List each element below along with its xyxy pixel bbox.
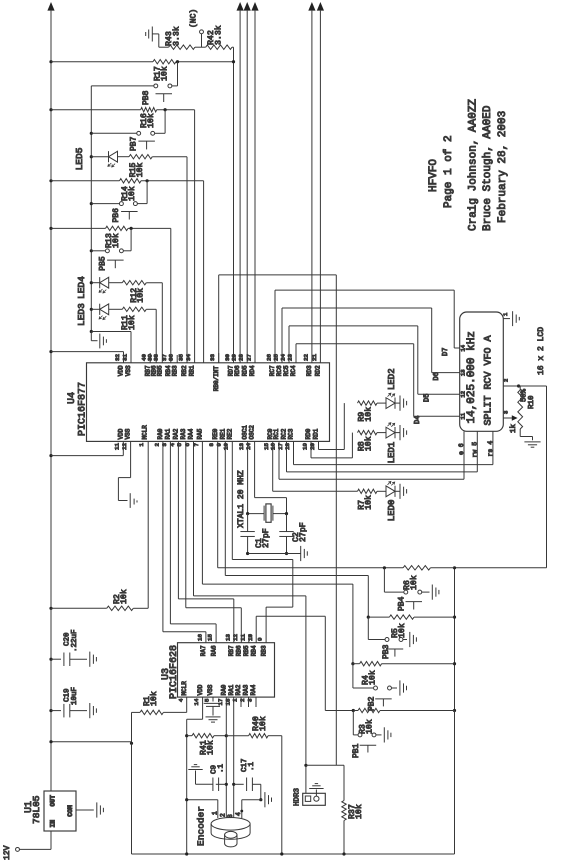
- ground U1 COM: [76, 809, 94, 811]
- resistor R3: [453, 709, 456, 712]
- wire U3 RB5 stub: [248, 634, 250, 643]
- svg-text:10k: 10k: [364, 719, 374, 734]
- svg-text:(NC): (NC): [189, 9, 198, 28]
- node OSC1/C1: [246, 512, 249, 515]
- power +5V arrow RD5: [244, 2, 251, 11]
- ground C17/encoder4: [259, 798, 262, 801]
- wire R1 to +5 node: [131, 712, 133, 743]
- svg-text:Encoder: Encoder: [195, 806, 206, 846]
- wire PB8 to ground rail: [91, 85, 153, 87]
- wire R13 node to PB5: [130, 228, 132, 250]
- svg-text:OSC2: OSC2: [249, 425, 256, 440]
- capacitor C19: [49, 709, 52, 712]
- resistor R2: [49, 607, 52, 610]
- svg-text:3: 3: [227, 814, 234, 818]
- svg-text:22: 22: [302, 354, 309, 361]
- svg-text:U4: U4: [67, 392, 78, 404]
- svg-text:Page 1 of 2: Page 1 of 2: [443, 135, 455, 208]
- wire +5V left rail vertical x=51 (to U1 OUT): [50, 11, 52, 791]
- svg-text:28: 28: [238, 354, 245, 361]
- svg-text:.1: .1: [248, 761, 256, 771]
- node OSC2/C2: [285, 512, 288, 515]
- svg-text:RC3: RC3: [288, 428, 295, 439]
- svg-text:29: 29: [231, 354, 238, 361]
- svg-text:D4: D4: [414, 416, 422, 424]
- wire R16 node to PB7: [164, 110, 166, 134]
- svg-text:18: 18: [284, 443, 291, 450]
- node RA0: [225, 734, 228, 737]
- ground HDR3 pin2: [315, 790, 317, 797]
- wire R13 row to U4 pin RB4: [170, 228, 172, 362]
- wire U4 RE2 to U3 RB3: [231, 441, 233, 559]
- wire R40 right to bottom rail: [281, 736, 283, 854]
- wire +5V branch to R14 row: [49, 179, 52, 182]
- wire U4 RC1 to LCD e: [278, 441, 280, 479]
- svg-text:PB5: PB5: [98, 256, 107, 271]
- op-amp U4 PIC16F877 box: [87, 363, 330, 442]
- svg-text:35: 35: [177, 354, 184, 361]
- node R10 top: [517, 384, 520, 387]
- svg-text:26: 26: [265, 354, 272, 361]
- svg-text:RA3: RA3: [243, 684, 250, 695]
- svg-text:RA1: RA1: [228, 684, 235, 695]
- node R16/PB7: [164, 108, 167, 111]
- svg-text:HDR3: HDR3: [293, 787, 301, 806]
- svg-text:PB1: PB1: [352, 743, 361, 758]
- svg-text:27pF: 27pF: [299, 522, 308, 542]
- svg-text:14: 14: [245, 443, 252, 450]
- svg-text:RA0: RA0: [157, 428, 164, 439]
- svg-text:February 28, 2003: February 28, 2003: [497, 111, 509, 223]
- U4 pin 40 stub: [149, 353, 151, 363]
- svg-text:.1: .1: [217, 763, 225, 773]
- svg-text:10k: 10k: [111, 233, 121, 248]
- svg-text:38: 38: [153, 354, 160, 361]
- svg-text:10uF: 10uF: [71, 687, 79, 705]
- svg-text:RE2: RE2: [226, 428, 233, 439]
- capacitor C20: [49, 658, 52, 661]
- svg-text:RB7: RB7: [228, 645, 235, 656]
- svg-text:VDD: VDD: [118, 365, 125, 376]
- resistor R37: [342, 801, 346, 821]
- svg-text:10k: 10k: [127, 315, 137, 330]
- LCD pin 3 wiper: [503, 417, 512, 419]
- svg-text:10k: 10k: [367, 670, 377, 685]
- svg-text:10k: 10k: [409, 575, 419, 590]
- svg-text:XTAL1 20 MHZ: XTAL1 20 MHZ: [237, 470, 246, 528]
- wire HDR3 to R37: [306, 764, 344, 766]
- svg-text:10k: 10k: [135, 162, 145, 177]
- svg-text:RC2: RC2: [281, 428, 288, 439]
- svg-text:RD1: RD1: [313, 428, 320, 439]
- svg-text:10: 10: [223, 443, 230, 450]
- U4 pin 36 stub: [176, 355, 178, 363]
- wire +5 U1 to R1 rail: [51, 741, 132, 743]
- svg-text:9: 9: [257, 637, 264, 641]
- svg-text:3: 3: [502, 411, 509, 414]
- power +5V arrow RD6: [237, 2, 244, 11]
- svg-text:32: 32: [114, 354, 121, 361]
- ground LED0: [395, 490, 400, 492]
- wire PB6 to ground rail: [91, 203, 119, 205]
- power +5V arrow RD4: [251, 2, 258, 11]
- svg-text:RC5: RC5: [283, 365, 290, 376]
- capacitor C2: [286, 514, 288, 532]
- U4 pin 33 stub: [218, 353, 220, 363]
- svg-text:LED5: LED5: [74, 147, 85, 170]
- wire +5V down right: [546, 386, 548, 568]
- svg-text:27: 27: [245, 354, 252, 361]
- svg-text:2: 2: [239, 698, 246, 702]
- resistor R17: [51, 61, 153, 63]
- ground LED1: [395, 432, 400, 434]
- svg-text:LED4: LED4: [76, 276, 87, 299]
- svg-text:10k: 10k: [397, 623, 407, 638]
- encoder pin 1: [217, 800, 219, 818]
- svg-text:10k: 10k: [258, 716, 268, 731]
- svg-text:12V: 12V: [3, 845, 12, 860]
- ground crystal: [300, 546, 302, 561]
- wire U4 RA1 to U3 RA6: [169, 441, 171, 624]
- svg-text:RB1: RB1: [189, 365, 196, 376]
- wire PB7 to ground rail: [91, 132, 136, 134]
- svg-text:13: 13: [224, 634, 231, 641]
- wire U4 RC2 to LCD rw: [286, 441, 288, 472]
- svg-text:2: 2: [220, 813, 227, 817]
- svg-text:RB3: RB3: [171, 365, 178, 376]
- wire U3 RB4 to R3 node: [255, 616, 257, 642]
- svg-text:RA2: RA2: [173, 428, 180, 439]
- svg-text:SPLIT RCV VFO A: SPLIT RCV VFO A: [483, 335, 494, 425]
- svg-text:RA4: RA4: [188, 428, 195, 439]
- svg-text:18: 18: [224, 698, 231, 705]
- svg-text:13: 13: [238, 443, 245, 450]
- wire U4 RA2 to U3 RB7: [177, 441, 179, 599]
- svg-text:RD4: RD4: [249, 365, 256, 376]
- resistor R1: [186, 697, 188, 712]
- capacitor C1: [247, 514, 249, 532]
- svg-text:OSC1: OSC1: [242, 425, 249, 440]
- svg-text:RC1: RC1: [273, 428, 280, 439]
- svg-text:.22uF: .22uF: [71, 629, 79, 652]
- wire bottom +5 rail: [132, 853, 455, 855]
- svg-text:VSS: VSS: [207, 684, 214, 695]
- svg-text:10k: 10k: [119, 589, 129, 604]
- svg-text:11: 11: [460, 412, 467, 419]
- wire U4 VDD pin11 feed: [49, 454, 52, 457]
- wire U4 RA0 to U3 RA7: [162, 441, 164, 631]
- svg-text:17: 17: [277, 443, 284, 450]
- svg-text:RC4: RC4: [290, 365, 297, 376]
- wire U4 RC3 to LCD rs: [293, 441, 295, 464]
- svg-text:10: 10: [247, 634, 254, 641]
- wire R16 row to U4 pin RB2: [194, 110, 196, 363]
- wire U3 RA4 stub: [255, 697, 257, 707]
- svg-text:1: 1: [138, 443, 145, 447]
- wire +5V right rail: [454, 568, 456, 711]
- power +5V arrow RD2: [317, 2, 324, 11]
- LED3: [91, 308, 99, 310]
- svg-text:PB6: PB6: [112, 208, 121, 223]
- ground PB1: [376, 734, 381, 736]
- svg-text:RC7: RC7: [269, 365, 276, 376]
- ground at R43: [151, 27, 153, 42]
- svg-text:10k: 10k: [363, 436, 373, 451]
- LED LED0: [386, 486, 395, 497]
- svg-text:20: 20: [309, 443, 316, 450]
- wire +5V branch to R16 row: [49, 108, 52, 111]
- svg-text:19: 19: [301, 443, 308, 450]
- svg-text:RE0: RE0: [212, 428, 219, 439]
- svg-text:VDD: VDD: [197, 684, 204, 695]
- regulator U1 78L05 box: [44, 791, 76, 831]
- svg-text:RE1: RE1: [219, 428, 226, 439]
- svg-text:RD3: RD3: [306, 365, 313, 376]
- LED LED2: [386, 398, 395, 409]
- resistor R8: [358, 430, 378, 434]
- ground rail for pushbuttons/LEDs x=91.3: [90, 86, 92, 332]
- svg-text:LED3: LED3: [76, 303, 87, 326]
- svg-text:1k: 1k: [510, 423, 518, 433]
- wire R17 to PB8: [177, 62, 179, 86]
- svg-text:21: 21: [311, 354, 318, 361]
- svg-text:RD5: RD5: [241, 365, 248, 376]
- wire R12 row to U4 pin RB5: [161, 283, 163, 363]
- svg-text:4: 4: [177, 698, 184, 702]
- pushbutton PB6: [133, 202, 137, 206]
- LED4: [91, 282, 99, 284]
- svg-text:8: 8: [208, 443, 215, 447]
- wire U4 OSC1 to crystal: [247, 441, 249, 513]
- node R17/PB8: [176, 60, 179, 63]
- svg-text:LED2: LED2: [387, 368, 397, 390]
- svg-text:e 6: e 6: [458, 443, 465, 455]
- svg-text:MCLR: MCLR: [181, 681, 188, 696]
- resistor R41: [185, 734, 188, 737]
- svg-text:10k: 10k: [149, 691, 159, 706]
- encoder pin 4: [241, 800, 243, 818]
- svg-text:RD0: RD0: [305, 428, 312, 439]
- wire U4 RE1 to R5 node: [224, 441, 226, 575]
- wire R14 row to U4 pin RB1: [203, 181, 205, 363]
- resistor R5: [453, 616, 456, 619]
- svg-text:5: 5: [204, 698, 211, 702]
- resistor R12: [109, 282, 123, 284]
- svg-text:D6: D6: [433, 372, 441, 380]
- node U1 OUT: [49, 740, 52, 743]
- connector HDR3: [303, 793, 326, 805]
- wire U3 VDD to +5 vertical: [202, 697, 204, 719]
- ground PB4: [422, 591, 430, 593]
- svg-text:PB7: PB7: [129, 136, 138, 151]
- svg-text:RC6: RC6: [276, 365, 283, 376]
- resistor R11: [109, 308, 123, 310]
- wire U4 RC0 to R7/LED0 row: [272, 441, 274, 491]
- node HDR3/R37: [304, 764, 307, 767]
- svg-text:VSS: VSS: [125, 428, 132, 439]
- svg-text:3.3k: 3.3k: [171, 26, 181, 46]
- svg-text:10k: 10k: [136, 288, 146, 303]
- svg-text:34: 34: [185, 354, 192, 361]
- wire R42 to U4 pin RD7(30): [233, 47, 235, 363]
- svg-text:5: 5: [176, 443, 183, 447]
- svg-text:PB4: PB4: [397, 596, 406, 611]
- svg-text:2: 2: [153, 443, 160, 447]
- svg-text:PIC16F877: PIC16F877: [78, 382, 89, 436]
- svg-text:12: 12: [460, 391, 467, 398]
- resistor R43: [158, 34, 160, 47]
- wire U4 RA4 to HDR3 node: [193, 441, 195, 596]
- wire +5V branch to R13 row: [49, 227, 52, 230]
- svg-text:6: 6: [184, 443, 191, 447]
- svg-text:PIC16F628: PIC16F628: [169, 645, 180, 699]
- pushbutton PB3: [367, 617, 369, 639]
- svg-text:3.3k: 3.3k: [213, 25, 223, 45]
- svg-text:Craig Johnson, AA0ZZ: Craig Johnson, AA0ZZ: [467, 99, 479, 231]
- pushbutton PB2: [352, 664, 354, 688]
- svg-text:HFVFO: HFVFO: [428, 159, 440, 192]
- svg-text:RA2: RA2: [235, 684, 242, 695]
- wire U4 RD0 to R8/LED1 row: [310, 441, 312, 458]
- svg-text:4: 4: [235, 812, 242, 816]
- svg-text:31: 31: [121, 354, 128, 361]
- svg-text:17: 17: [217, 698, 224, 705]
- svg-text:RB5: RB5: [243, 645, 250, 656]
- ground LED2: [395, 402, 400, 404]
- resistor R40: [226, 735, 248, 737]
- svg-text:COM: COM: [67, 805, 74, 817]
- pushbutton PB1: [352, 711, 354, 735]
- wire U4 RB0/INT to HDR3: [218, 275, 220, 363]
- svg-text:25: 25: [272, 354, 279, 361]
- svg-text:9: 9: [216, 443, 223, 447]
- svg-text:VDD: VDD: [117, 428, 124, 439]
- resistor R4: [453, 662, 456, 665]
- svg-text:RD2: RD2: [315, 365, 322, 376]
- wire U4 RA5 to R4 node: [201, 441, 203, 584]
- crystal XTAL1 20 MHZ: [263, 506, 265, 521]
- svg-text:2: 2: [502, 379, 509, 382]
- node R14/PB6: [146, 179, 149, 182]
- capacitor on U3 VSS + ground: [212, 697, 214, 701]
- svg-text:16: 16: [197, 634, 204, 641]
- svg-text:15: 15: [207, 634, 214, 641]
- wire R14 node to PB6: [146, 181, 148, 204]
- LED5: [91, 156, 108, 158]
- pushbutton PB4: [383, 568, 385, 592]
- wire +5 down to bottom rail: [131, 743, 133, 854]
- resistor R14: [51, 180, 120, 182]
- svg-text:16 x 2 LCD: 16 x 2 LCD: [537, 327, 546, 375]
- capacitor C9: [225, 697, 227, 818]
- svg-text:24: 24: [279, 354, 286, 361]
- wire PB5 to ground rail: [91, 250, 105, 252]
- svg-text:RA1: RA1: [165, 428, 172, 439]
- svg-text:rw 5: rw 5: [471, 442, 478, 458]
- svg-text:RB4: RB4: [250, 645, 257, 656]
- resistor R16: [51, 109, 141, 111]
- pushbutton PB5: [119, 249, 123, 253]
- svg-text:12: 12: [121, 443, 128, 450]
- wire R2 to U4 MCLR pin1: [147, 441, 149, 608]
- svg-text:rs 4: rs 4: [487, 441, 494, 457]
- pushbutton PB8: [168, 84, 172, 88]
- resistor R9: [358, 401, 378, 405]
- resistor R7: [358, 489, 378, 493]
- encoder body: [211, 818, 250, 831]
- wire U3 RA2 stub: [240, 697, 242, 707]
- svg-text:R10: R10: [528, 395, 536, 409]
- svg-text:RD6: RD6: [234, 365, 241, 376]
- svg-text:RB2: RB2: [181, 365, 188, 376]
- svg-text:1: 1: [211, 811, 218, 815]
- wire U4 VDD pin32 feed: [49, 350, 52, 353]
- terminal 12V input: [50, 831, 52, 849]
- svg-text:14: 14: [460, 344, 467, 351]
- svg-text:RA4: RA4: [250, 684, 257, 695]
- svg-text:13: 13: [460, 369, 467, 376]
- svg-text:23: 23: [286, 354, 293, 361]
- svg-text:12: 12: [232, 634, 239, 641]
- node R13/PB5: [130, 227, 133, 230]
- svg-text:RA6: RA6: [210, 645, 217, 656]
- svg-text:VSS: VSS: [125, 365, 132, 376]
- svg-text:D5: D5: [424, 394, 432, 402]
- svg-text:OUT: OUT: [49, 795, 56, 807]
- svg-text:14: 14: [193, 698, 200, 705]
- wire U4 VSS pin31 to ground: [91, 331, 131, 333]
- svg-text:4: 4: [169, 443, 176, 447]
- power +5V arrow RD3: [308, 2, 315, 11]
- svg-text:D7: D7: [442, 348, 450, 356]
- wire R11 row to U4 pin RB6: [155, 309, 157, 363]
- svg-text:RB5: RB5: [156, 365, 163, 376]
- wire D4 net U4 RC4 to LCD D4: [295, 344, 297, 363]
- wire +5V branch to R17 row: [49, 60, 52, 63]
- wire D7 net U4 RC7 to LCD D7: [274, 290, 276, 363]
- wire U4 RD1 to R9/LED2 row: [318, 441, 320, 449]
- svg-text:RB0/INT: RB0/INT: [213, 366, 220, 392]
- no-connect terminal (NC): [200, 30, 204, 34]
- svg-text:RA5: RA5: [197, 428, 204, 439]
- svg-text:RB6: RB6: [236, 645, 243, 656]
- wire U3 RA3 stub: [248, 697, 250, 707]
- svg-text:10k: 10k: [354, 804, 364, 819]
- svg-text:33: 33: [209, 354, 216, 361]
- power +5V arrow (left rail): [47, 2, 54, 11]
- svg-text:Bruce Stough, AA0ED: Bruce Stough, AA0ED: [482, 105, 494, 231]
- svg-text:RA3: RA3: [180, 428, 187, 439]
- svg-text:3: 3: [247, 698, 254, 702]
- svg-text:LED1: LED1: [387, 442, 397, 464]
- svg-text:10k: 10k: [205, 740, 215, 755]
- LCD module 16x2 box: [460, 312, 504, 431]
- resistor R42: [206, 45, 232, 49]
- svg-text:PB3: PB3: [382, 644, 391, 659]
- svg-text:11: 11: [239, 634, 246, 641]
- wire U4 OSC2 to crystal: [254, 441, 256, 497]
- wire D5 net U4 RC5 to LCD D5: [288, 326, 290, 363]
- svg-text:10k: 10k: [159, 66, 169, 81]
- resistor R13: [51, 227, 106, 229]
- capacitor C17: [233, 697, 235, 818]
- svg-text:LED0: LED0: [387, 500, 397, 522]
- svg-text:MCLR: MCLR: [142, 425, 149, 440]
- wire D6 net U4 RC6 to LCD D6: [281, 308, 283, 363]
- ground symbol at U4 VSS pin31: [90, 330, 93, 333]
- svg-text:36: 36: [168, 354, 175, 361]
- LED LED1: [386, 427, 395, 438]
